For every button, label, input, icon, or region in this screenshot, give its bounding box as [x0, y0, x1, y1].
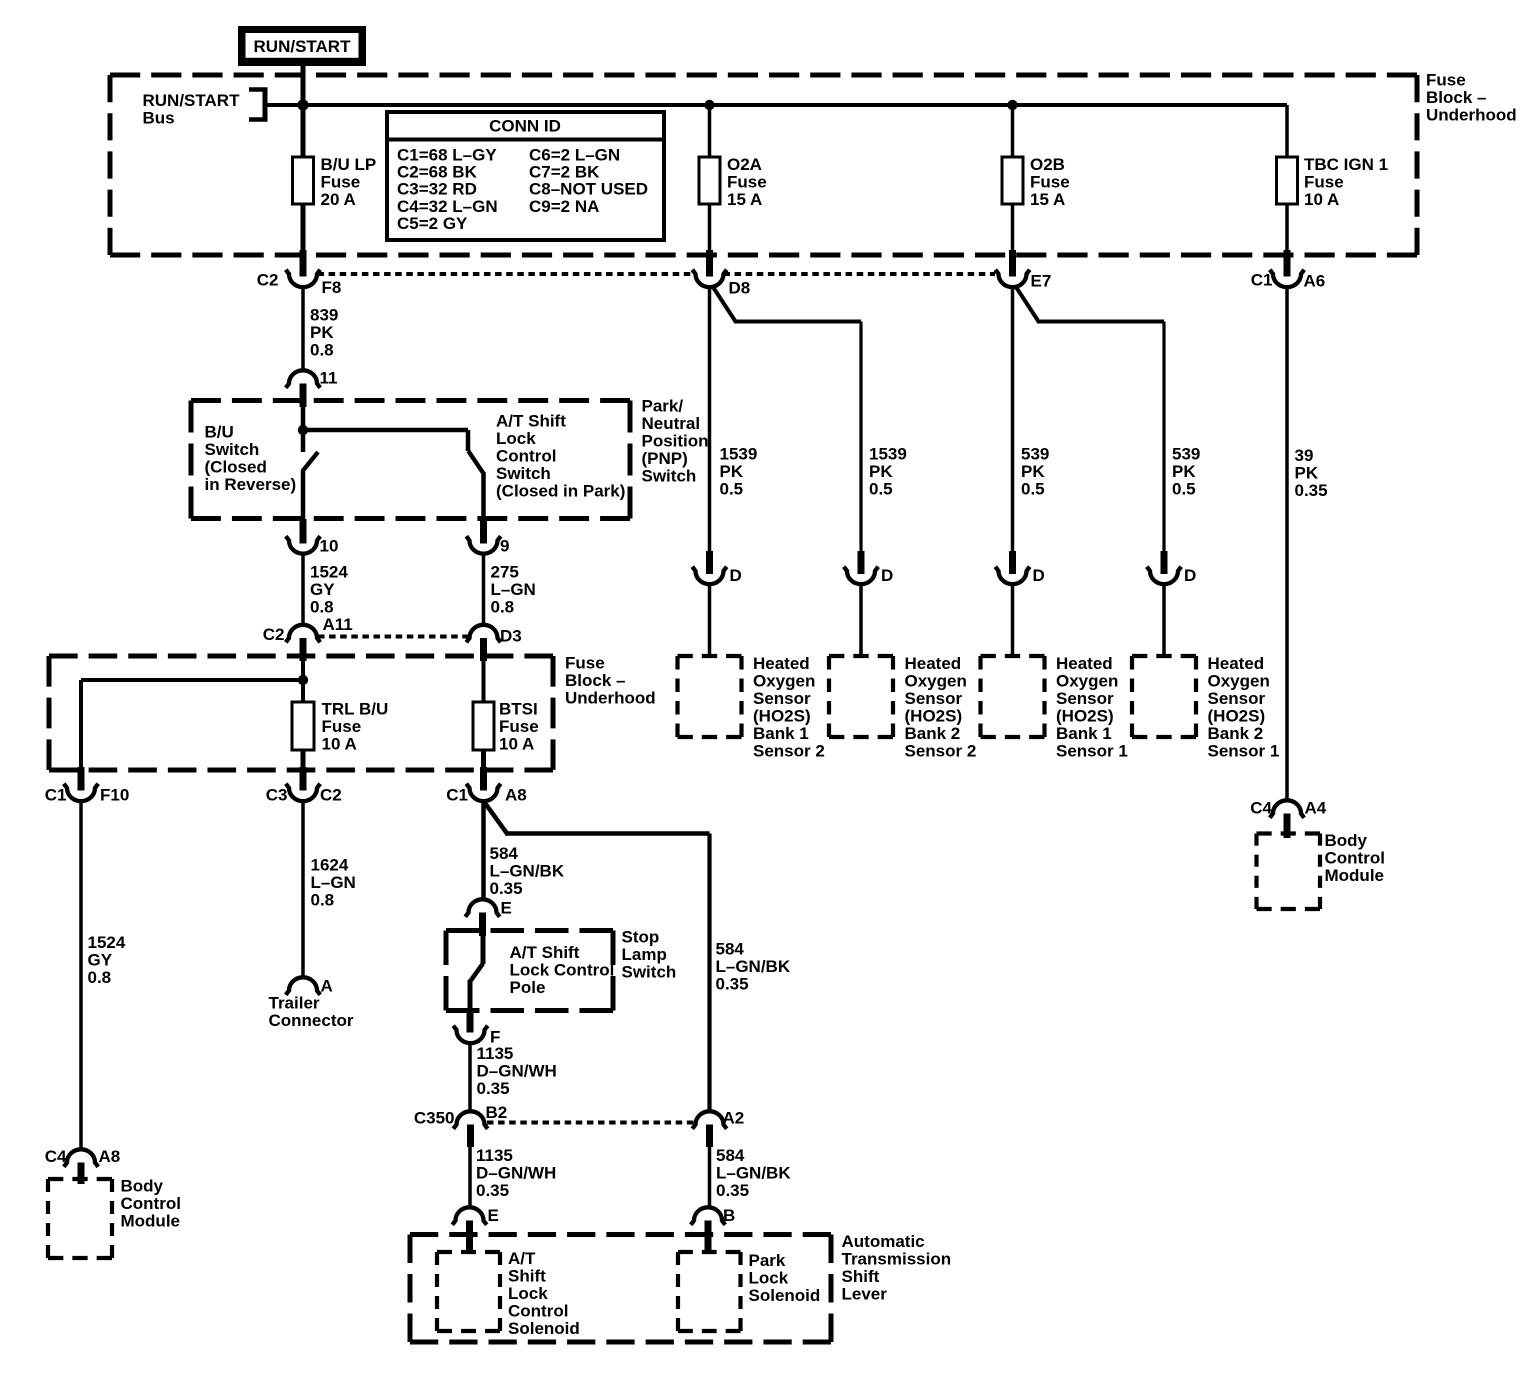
- svg-text:A/T: A/T: [508, 1249, 536, 1268]
- wire E7 diagonal branch: [1016, 287, 1039, 322]
- fuse block - underhood (dashed box): [110, 73, 1417, 78]
- svg-text:1524: 1524: [88, 933, 126, 952]
- wire RUN/START feed down: [301, 66, 306, 157]
- svg-text:GY: GY: [88, 951, 113, 970]
- fuse TBC IGN 1 10A: [1277, 157, 1298, 204]
- wire below BTSI fuse: [481, 750, 486, 768]
- heated oxygen sensor box col4: [1132, 654, 1196, 658]
- A/T shift lock control solenoid box: [437, 1250, 500, 1254]
- connector E solenoid: [452, 1207, 486, 1225]
- svg-text:Sensor: Sensor: [1208, 689, 1266, 708]
- connector C1 F10: [78, 767, 85, 791]
- svg-text:A/T Shift: A/T Shift: [510, 943, 580, 962]
- svg-text:Lock: Lock: [496, 429, 536, 448]
- svg-text:C1: C1: [1251, 271, 1273, 290]
- svg-text:Bank 1: Bank 1: [1056, 724, 1112, 743]
- connector D col2: [858, 551, 865, 574]
- body control module box left: [48, 1177, 112, 1181]
- svg-text:A4: A4: [1305, 799, 1327, 818]
- svg-text:A: A: [321, 977, 333, 996]
- svg-text:Solenoid: Solenoid: [749, 1286, 821, 1305]
- svg-text:Fuse: Fuse: [322, 717, 362, 736]
- svg-text:Lock: Lock: [749, 1269, 789, 1288]
- svg-text:Sensor: Sensor: [905, 689, 963, 708]
- svg-text:0.5: 0.5: [720, 480, 744, 499]
- svg-text:Sensor 2: Sensor 2: [753, 742, 825, 761]
- connector 9: [480, 519, 487, 544]
- svg-text:Sensor 1: Sensor 1: [1208, 742, 1280, 761]
- svg-text:584: 584: [716, 940, 745, 959]
- svg-text:Fuse: Fuse: [1030, 173, 1070, 192]
- connector C2 A11: [286, 625, 320, 642]
- svg-text:Control: Control: [1325, 849, 1385, 868]
- svg-text:Fuse: Fuse: [1304, 173, 1344, 192]
- svg-text:Underhood: Underhood: [565, 689, 656, 708]
- dotted harness line row1: [318, 272, 696, 276]
- wire O2A feed: [708, 105, 712, 157]
- svg-text:C9=2 NA: C9=2 NA: [529, 197, 599, 216]
- svg-text:PK: PK: [1172, 462, 1196, 481]
- wire 1135 lower: [468, 1147, 472, 1208]
- svg-text:(HO2S): (HO2S): [905, 707, 963, 726]
- svg-text:0.8: 0.8: [88, 968, 112, 987]
- heated oxygen sensor box col2: [829, 654, 893, 658]
- svg-text:Fuse: Fuse: [321, 173, 361, 192]
- fuse O2A 15A: [699, 157, 720, 204]
- svg-text:0.8: 0.8: [311, 891, 335, 910]
- svg-text:F8: F8: [322, 278, 342, 297]
- svg-text:Switch: Switch: [205, 440, 260, 459]
- svg-text:C1: C1: [446, 786, 468, 805]
- svg-text:L–GN: L–GN: [491, 580, 536, 599]
- wire D8 down: [708, 287, 712, 551]
- svg-text:0.35: 0.35: [490, 879, 523, 898]
- park lock solenoid box: [678, 1250, 741, 1254]
- node junction at O2B fuse: [1007, 100, 1017, 110]
- svg-text:L–GN/BK: L–GN/BK: [716, 957, 791, 976]
- fuse block underhood 2 (dashed box): [49, 654, 553, 659]
- svg-text:Switch: Switch: [622, 963, 677, 982]
- svg-text:O2A: O2A: [727, 155, 762, 174]
- connector C350 B2: [453, 1111, 487, 1129]
- svg-text:1539: 1539: [720, 445, 758, 464]
- wire 584 lower: [708, 1147, 712, 1208]
- svg-text:Switch: Switch: [642, 467, 697, 486]
- connector 10: [300, 519, 307, 544]
- svg-text:L–GN/BK: L–GN/BK: [490, 862, 565, 881]
- wire to HO2S col4: [1162, 584, 1166, 658]
- connector B solenoid: [691, 1207, 725, 1225]
- svg-text:L–GN/BK: L–GN/BK: [716, 1164, 791, 1183]
- svg-text:Switch: Switch: [496, 464, 551, 483]
- svg-text:A11: A11: [323, 615, 353, 634]
- svg-text:1539: 1539: [869, 445, 907, 464]
- svg-text:C4: C4: [1250, 799, 1272, 818]
- svg-text:Module: Module: [1325, 866, 1385, 885]
- svg-text:B: B: [723, 1206, 735, 1225]
- svg-text:Oxygen: Oxygen: [1208, 672, 1270, 691]
- svg-text:Control: Control: [508, 1302, 568, 1321]
- svg-text:0.5: 0.5: [869, 480, 893, 499]
- connector D3: [466, 625, 500, 642]
- svg-text:D: D: [1184, 566, 1196, 585]
- svg-text:C4: C4: [45, 1147, 67, 1166]
- svg-text:(Closed: (Closed: [205, 458, 267, 477]
- svg-text:Lock: Lock: [508, 1284, 548, 1303]
- svg-text:C2: C2: [257, 271, 279, 290]
- automatic transmission shift lever box (dashed): [410, 1232, 831, 1237]
- svg-text:D8: D8: [729, 279, 751, 298]
- svg-text:B/U LP: B/U LP: [321, 155, 377, 174]
- svg-text:11: 11: [320, 369, 338, 388]
- svg-text:in Reverse): in Reverse): [205, 475, 297, 494]
- svg-text:O2B: O2B: [1030, 155, 1065, 174]
- svg-text:BTSI: BTSI: [499, 700, 538, 719]
- svg-text:0.8: 0.8: [310, 598, 334, 617]
- svg-text:Body: Body: [121, 1177, 164, 1196]
- svg-text:539: 539: [1021, 445, 1049, 464]
- CONN ID table: [387, 112, 664, 240]
- svg-text:A/T Shift: A/T Shift: [496, 412, 566, 431]
- svg-text:D: D: [730, 566, 742, 585]
- svg-text:10: 10: [320, 537, 339, 556]
- svg-text:Fuse: Fuse: [727, 173, 767, 192]
- wire 1624: [301, 801, 305, 978]
- svg-text:C350: C350: [414, 1109, 455, 1128]
- svg-text:Transmission: Transmission: [842, 1250, 952, 1269]
- svg-text:0.35: 0.35: [1295, 481, 1328, 500]
- connector C3 C2: [300, 767, 307, 791]
- svg-text:Control: Control: [121, 1194, 181, 1213]
- svg-text:PK: PK: [310, 323, 334, 342]
- wire 584 down to E: [481, 801, 486, 900]
- svg-text:10 A: 10 A: [1304, 190, 1339, 209]
- svg-text:20 A: 20 A: [321, 190, 356, 209]
- connector F: [467, 1010, 474, 1033]
- svg-text:0.8: 0.8: [310, 341, 334, 360]
- svg-text:PK: PK: [720, 462, 744, 481]
- svg-text:C3: C3: [266, 786, 288, 805]
- svg-text:1135: 1135: [476, 1146, 513, 1165]
- svg-text:839: 839: [310, 306, 338, 325]
- svg-text:Lamp: Lamp: [622, 945, 667, 964]
- stop lamp switch pole wire: [481, 930, 486, 964]
- wire 1135 upper: [468, 1043, 472, 1112]
- svg-text:Fuse: Fuse: [1426, 71, 1466, 90]
- wire 1524 lower: [79, 801, 83, 1150]
- svg-text:Bank 1: Bank 1: [753, 724, 809, 743]
- svg-text:Bank 2: Bank 2: [905, 724, 961, 743]
- connector 11: [286, 370, 320, 387]
- body control module box right: [1257, 831, 1321, 835]
- svg-text:0.35: 0.35: [476, 1181, 509, 1200]
- svg-text:TBC IGN 1: TBC IGN 1: [1304, 155, 1388, 174]
- svg-text:D–GN/WH: D–GN/WH: [477, 1062, 557, 1081]
- svg-text:Lever: Lever: [842, 1285, 888, 1304]
- svg-text:539: 539: [1172, 445, 1200, 464]
- svg-text:Bank 2: Bank 2: [1208, 724, 1264, 743]
- svg-text:Heated: Heated: [753, 654, 810, 673]
- dotted harness line row2: [318, 635, 469, 639]
- svg-text:Sensor 2: Sensor 2: [905, 742, 977, 761]
- svg-text:C1: C1: [45, 786, 67, 805]
- connector D col4: [1161, 551, 1168, 574]
- svg-text:Oxygen: Oxygen: [905, 672, 967, 691]
- svg-text:E: E: [501, 899, 512, 918]
- svg-text:D–GN/WH: D–GN/WH: [476, 1164, 556, 1183]
- svg-text:10 A: 10 A: [499, 735, 534, 754]
- svg-text:Neutral: Neutral: [642, 414, 701, 433]
- svg-text:Automatic: Automatic: [842, 1232, 925, 1251]
- wire below B/U LP fuse: [301, 204, 306, 253]
- svg-text:Heated: Heated: [1056, 654, 1113, 673]
- svg-text:D: D: [881, 566, 893, 585]
- svg-text:Oxygen: Oxygen: [753, 672, 815, 691]
- wire below O2B fuse: [1011, 204, 1015, 253]
- svg-text:Stop: Stop: [622, 928, 660, 947]
- wire below TBC fuse: [1285, 204, 1289, 253]
- bus bracket: [263, 88, 268, 122]
- svg-text:Block –: Block –: [1426, 88, 1486, 107]
- svg-text:15 A: 15 A: [727, 190, 762, 209]
- fuse BTSI 10A: [473, 702, 494, 750]
- svg-text:0.35: 0.35: [477, 1079, 510, 1098]
- svg-text:(Closed in Park): (Closed in Park): [496, 482, 625, 501]
- svg-text:Module: Module: [121, 1212, 181, 1231]
- svg-text:Control: Control: [496, 447, 556, 466]
- svg-text:A8: A8: [99, 1147, 121, 1166]
- svg-text:C5=2 GY: C5=2 GY: [397, 214, 468, 233]
- svg-text:(HO2S): (HO2S): [1056, 707, 1114, 726]
- PNP switch box (dashed): [191, 398, 630, 403]
- wire to HO2S col2: [859, 584, 863, 658]
- svg-text:Park/: Park/: [642, 397, 684, 416]
- wire D8 diagonal branch: [713, 287, 736, 322]
- connector A trailer: [286, 977, 320, 995]
- wire A11 to TRL fuse: [301, 658, 305, 702]
- svg-text:15 A: 15 A: [1030, 190, 1065, 209]
- fuse TRL B/U 10A: [292, 702, 314, 750]
- wire to A/T switch: [303, 428, 468, 433]
- svg-text:Shift: Shift: [508, 1267, 546, 1286]
- svg-text:Solenoid: Solenoid: [508, 1319, 580, 1338]
- wire O2B feed: [1011, 105, 1015, 157]
- wire 584 branch diagonal: [484, 801, 508, 834]
- svg-text:9: 9: [500, 537, 509, 556]
- connector E7: [1009, 250, 1016, 277]
- svg-text:1624: 1624: [311, 856, 349, 875]
- dotted harness line row3: [487, 1121, 694, 1125]
- connector E stop lamp: [465, 899, 499, 916]
- heated oxygen sensor box col3: [981, 654, 1045, 658]
- svg-text:Lock Control: Lock Control: [510, 961, 615, 980]
- connector C1 A8: [480, 767, 487, 791]
- svg-text:Position: Position: [642, 432, 709, 451]
- wire 839: [301, 287, 305, 371]
- bus wire: [265, 103, 1287, 107]
- wire into switches: [301, 401, 306, 453]
- svg-text:A6: A6: [1304, 272, 1326, 291]
- svg-text:0.35: 0.35: [716, 1181, 749, 1200]
- connector C1 A6: [1284, 250, 1291, 277]
- wire TBC drop: [1285, 105, 1289, 157]
- A/T switch blade: [468, 451, 483, 474]
- svg-text:Trailer: Trailer: [269, 994, 320, 1013]
- connector D col1: [706, 551, 713, 574]
- svg-text:Block –: Block –: [565, 671, 625, 690]
- connector A2: [692, 1111, 726, 1129]
- svg-text:Sensor: Sensor: [753, 689, 811, 708]
- connector C4 A8 bcm: [64, 1149, 98, 1167]
- svg-text:A2: A2: [723, 1109, 745, 1128]
- svg-text:Underhood: Underhood: [1426, 106, 1517, 125]
- svg-text:0.5: 0.5: [1021, 480, 1045, 499]
- svg-text:D3: D3: [500, 627, 522, 646]
- svg-text:E7: E7: [1031, 272, 1052, 291]
- svg-text:B/U: B/U: [205, 423, 234, 442]
- B/U switch lower wire: [301, 471, 306, 521]
- svg-text:RUN/START: RUN/START: [143, 91, 241, 110]
- svg-text:E: E: [488, 1206, 499, 1225]
- svg-text:(HO2S): (HO2S): [1208, 707, 1266, 726]
- svg-text:275: 275: [491, 563, 519, 582]
- svg-text:A8: A8: [505, 786, 527, 805]
- connector D8: [706, 250, 713, 277]
- svg-text:Pole: Pole: [510, 978, 546, 997]
- svg-text:Sensor: Sensor: [1056, 689, 1114, 708]
- heated oxygen sensor box col1: [678, 654, 742, 658]
- svg-text:C2: C2: [320, 786, 342, 805]
- svg-text:39: 39: [1295, 446, 1314, 465]
- svg-text:(HO2S): (HO2S): [753, 707, 811, 726]
- node junction at O2A fuse: [704, 100, 714, 110]
- node junction switch feed: [298, 425, 308, 435]
- svg-text:PK: PK: [1295, 464, 1319, 483]
- svg-text:TRL B/U: TRL B/U: [322, 700, 389, 719]
- svg-text:Fuse: Fuse: [499, 717, 539, 736]
- A/T switch lower wire: [481, 472, 486, 521]
- wire 1524 upper: [301, 554, 305, 626]
- svg-text:RUN/START: RUN/START: [254, 37, 352, 56]
- svg-text:1135: 1135: [477, 1044, 514, 1063]
- connector D col3: [1009, 551, 1016, 574]
- svg-text:Park: Park: [749, 1251, 786, 1270]
- svg-text:GY: GY: [310, 580, 335, 599]
- wire below O2A fuse: [708, 204, 712, 253]
- svg-text:C2: C2: [263, 625, 285, 644]
- node junction at B/U LP fuse: [297, 99, 308, 110]
- wire E7 down: [1011, 287, 1015, 551]
- fuse B/U LP 20A: [293, 157, 314, 204]
- svg-text:Body: Body: [1325, 831, 1368, 850]
- fuse O2B 15A: [1002, 157, 1023, 204]
- wire 275: [482, 554, 486, 626]
- RUN/START feed box: [238, 26, 366, 66]
- wire TRL branch horizontal: [81, 678, 303, 682]
- svg-text:Heated: Heated: [905, 654, 962, 673]
- svg-text:L–GN: L–GN: [311, 873, 356, 892]
- wire to HO2S col1: [708, 584, 712, 658]
- svg-text:0.5: 0.5: [1172, 480, 1196, 499]
- svg-text:Shift: Shift: [842, 1267, 880, 1286]
- svg-text:0.35: 0.35: [716, 975, 749, 994]
- svg-text:Oxygen: Oxygen: [1056, 672, 1118, 691]
- svg-text:Heated: Heated: [1208, 654, 1265, 673]
- svg-text:Connector: Connector: [269, 1011, 354, 1030]
- svg-text:10 A: 10 A: [322, 735, 357, 754]
- svg-text:Sensor 1: Sensor 1: [1056, 742, 1128, 761]
- stop lamp switch box (dashed): [446, 928, 613, 933]
- svg-text:1524: 1524: [310, 563, 348, 582]
- B/U switch blade: [302, 452, 318, 472]
- svg-text:584: 584: [716, 1146, 745, 1165]
- wire below TRL fuse: [301, 750, 306, 768]
- svg-text:B2: B2: [486, 1103, 508, 1122]
- connector C4 A4: [1270, 800, 1304, 818]
- svg-text:F10: F10: [100, 786, 129, 805]
- svg-text:0.8: 0.8: [491, 598, 515, 617]
- svg-text:Bus: Bus: [143, 109, 175, 128]
- wire D3 to BTSI fuse: [482, 658, 486, 702]
- svg-text:Fuse: Fuse: [565, 654, 605, 673]
- svg-text:PK: PK: [869, 462, 893, 481]
- wire to HO2S col3: [1011, 584, 1015, 658]
- node junction TRL: [298, 675, 308, 685]
- svg-text:PK: PK: [1021, 462, 1045, 481]
- svg-text:CONN ID: CONN ID: [489, 117, 561, 136]
- svg-text:584: 584: [490, 844, 519, 863]
- svg-text:D: D: [1033, 566, 1045, 585]
- connector C2 F8: [300, 250, 307, 277]
- svg-text:(PNP): (PNP): [642, 449, 688, 468]
- wire 39 down: [1285, 287, 1289, 801]
